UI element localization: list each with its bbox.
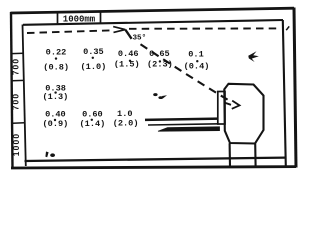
ink smudge bottom left bbox=[45, 152, 55, 158]
scale bar box left tick bbox=[57, 12, 59, 23]
svg-text:(1.0): (1.0) bbox=[81, 62, 107, 72]
dimension tick 1 bbox=[12, 52, 24, 54]
dimension tick 2 bbox=[12, 79, 24, 81]
jet axis dashed line bbox=[141, 44, 230, 101]
chamber right wall bbox=[283, 20, 286, 167]
device inlet panel bbox=[218, 92, 225, 125]
pedestal right edge bbox=[254, 144, 257, 167]
svg-text:0.46: 0.46 bbox=[118, 49, 139, 59]
burner lance top tube bbox=[145, 119, 220, 120]
jet axis end dash bbox=[225, 103, 232, 105]
svg-text:0.1: 0.1 bbox=[188, 49, 203, 59]
ceiling dashed line right segment bbox=[129, 27, 281, 29]
ink mark small arrow top right bbox=[248, 51, 258, 62]
outer frame right edge bbox=[294, 8, 296, 168]
svg-text:(2.0): (2.0) bbox=[113, 119, 139, 129]
chamber floor bbox=[25, 158, 286, 161]
ceiling dashed line left segment bbox=[27, 30, 113, 33]
measuring point dots row 3 bbox=[54, 119, 93, 122]
ink smudge centre bbox=[153, 93, 167, 99]
outer frame left edge bbox=[11, 12, 13, 168]
outer frame top edge bbox=[11, 8, 295, 13]
svg-text:700: 700 bbox=[11, 58, 21, 76]
left dimension strip inner line bbox=[23, 25, 26, 167]
burner lance lower body bbox=[158, 127, 220, 131]
pedestal left edge bbox=[229, 143, 231, 167]
svg-text:(0.8): (0.8) bbox=[43, 62, 69, 72]
measuring point dot row 2 bbox=[54, 91, 56, 93]
small tick top right corner bbox=[286, 26, 289, 30]
first bold dash of jet axis bbox=[125, 30, 131, 39]
svg-text:0.65: 0.65 bbox=[149, 49, 170, 59]
svg-text:1000mm: 1000mm bbox=[63, 14, 96, 24]
burner lance middle tube bbox=[148, 124, 220, 125]
chamber top wall bbox=[23, 20, 283, 25]
octagonal device body bbox=[224, 84, 263, 144]
angle arrowhead at 35-degree vertex bbox=[113, 27, 125, 33]
svg-text:0.35: 0.35 bbox=[83, 47, 104, 57]
outer frame bottom edge bbox=[11, 167, 296, 168]
measuring point dots row 1 bbox=[55, 57, 199, 63]
svg-text:700: 700 bbox=[11, 93, 21, 111]
svg-text:0.22: 0.22 bbox=[46, 48, 67, 58]
svg-text:1000: 1000 bbox=[11, 133, 21, 156]
svg-text:(1.5): (1.5) bbox=[114, 60, 140, 70]
jet axis arrowhead bbox=[232, 101, 240, 109]
svg-text:(0.4): (0.4) bbox=[184, 62, 210, 72]
svg-text:35°: 35° bbox=[133, 34, 147, 43]
scale bar box right tick bbox=[100, 12, 102, 23]
dimension tick 3 bbox=[13, 122, 25, 124]
